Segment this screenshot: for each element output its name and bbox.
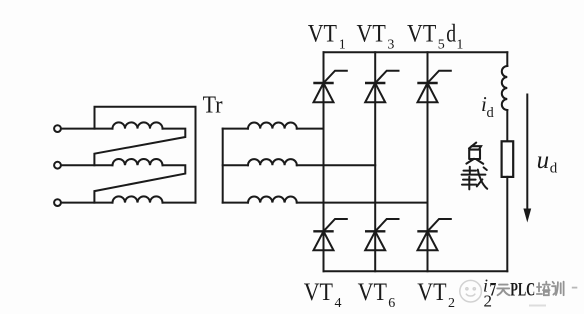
wire phase B to primary winding 2: [61, 164, 113, 166]
watermark small marks: [529, 305, 546, 307]
secondary winding c coil: [248, 197, 297, 203]
svg-text:VT3: VT3: [357, 21, 395, 53]
primary winding 2 coil: [113, 159, 163, 165]
svg-text:VT4: VT4: [304, 279, 342, 311]
arrow ud direction: [523, 95, 531, 223]
svg-text:PLC: PLC: [510, 279, 535, 300]
wire star to secondary winding a: [223, 128, 248, 130]
thyristor VT2: [418, 219, 451, 250]
label load 负 (hand-drawn glyph): [466, 143, 483, 164]
bridge positive bus: [324, 51, 508, 53]
svg-text:VT5: VT5: [407, 21, 445, 53]
thyristor VT1: [314, 71, 347, 103]
watermark circle logo: [460, 280, 482, 302]
watermark glyph 训: [552, 282, 564, 296]
svg-text:7: 7: [490, 279, 497, 300]
wire phase A to primary winding 1: [61, 128, 113, 130]
transformer Tr primary terminal B: [54, 162, 61, 169]
secondary winding b coil: [248, 159, 297, 165]
svg-text:Tr: Tr: [203, 93, 223, 119]
wire phase C to primary winding 3: [61, 202, 113, 204]
transformer Tr primary terminal A: [54, 125, 61, 132]
wire delta link winding2 end to winding3 start: [94, 165, 185, 202]
wire secondary c to bridge leg 3: [297, 202, 428, 204]
label load 载 (hand-drawn glyph): [462, 167, 488, 190]
svg-text:VT6: VT6: [358, 279, 396, 311]
svg-text:VT2: VT2: [417, 279, 455, 311]
wire delta link winding1 end to winding2 start: [94, 129, 185, 166]
inductor d1: [502, 66, 507, 110]
watermark dash: [572, 287, 578, 289]
secondary winding a coil: [248, 123, 297, 129]
wire secondary a to bridge leg 1: [297, 128, 324, 130]
wire reactor to load: [506, 110, 508, 141]
wire winding3 end to delta corner: [163, 202, 196, 204]
thyristor VT3: [365, 71, 398, 103]
wire load to dc negative: [506, 177, 508, 271]
transformer Tr primary terminal C: [54, 199, 61, 206]
primary winding 1 coil: [113, 122, 163, 128]
wire secondary b to bridge leg 2: [297, 164, 375, 166]
wire delta top link: [95, 107, 196, 203]
svg-text:ud: ud: [537, 147, 558, 177]
wire dc positive to smoothing reactor d1: [506, 52, 508, 66]
bridge negative bus: [324, 270, 508, 272]
svg-text:VT1: VT1: [308, 21, 346, 53]
transformer secondary star point bus: [222, 129, 224, 203]
svg-text:d1: d1: [446, 21, 463, 53]
thyristor VT6: [365, 219, 398, 250]
bridge leg 3 wire: [427, 52, 429, 271]
bridge leg 1 wire: [323, 52, 325, 271]
watermark glyph 培: [537, 282, 550, 296]
thyristor VT5: [418, 71, 451, 103]
wire star to secondary winding b: [223, 164, 248, 166]
wire star to secondary winding c: [223, 202, 248, 204]
svg-text:id: id: [481, 92, 495, 121]
watermark glyph 天: [497, 285, 509, 296]
bridge leg 2 wire: [374, 52, 376, 271]
thyristor VT4: [314, 219, 347, 250]
primary winding 3 coil: [113, 196, 163, 202]
load resistor box: [502, 141, 514, 177]
